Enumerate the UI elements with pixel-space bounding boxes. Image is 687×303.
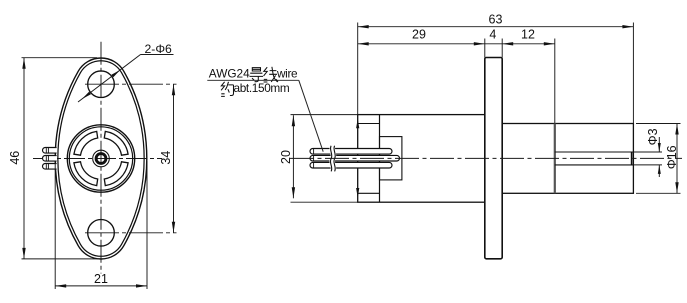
- dimension 12 extension line right: [554, 39, 556, 124]
- crosshair / extension line bottom hole: [85, 232, 177, 234]
- dimension PHI3 extension line bottom: [633, 164, 662, 166]
- dimension 21 line with arrows: [55, 285, 147, 287]
- dimension 20 extension line top: [291, 114, 358, 116]
- body step line top (side view): [358, 123, 380, 125]
- wire tab top (front view): [43, 148, 57, 154]
- wire lead top (side view): [310, 149, 392, 155]
- dimension PHI3 line with outside arrows: [658, 137, 660, 152]
- leader arrowhead upper right: [111, 70, 120, 77]
- label AWG underline: [207, 79, 298, 81]
- CJK glyph YUE (approx): [221, 82, 233, 97]
- phi3 bore line bottom (side view): [555, 164, 634, 166]
- cable break symbol (side view): [332, 146, 333, 172]
- dimension 63 extension line right: [632, 23, 634, 124]
- dimension 29/4/12 extension line at flange left: [484, 39, 486, 58]
- dimension 4 line segment: [485, 43, 502, 45]
- connector body outer circle (front view): [67, 125, 134, 192]
- small arrow mark on left face bottom: [356, 188, 359, 198]
- dimension 46 line with arrows: [23, 58, 25, 259]
- dimension 29/4/12 extension line at flange right: [501, 39, 503, 58]
- leader arrowhead lower left: [82, 92, 91, 99]
- svg-text:63: 63: [489, 13, 503, 27]
- bore end wall (side view): [631, 152, 633, 165]
- phi3 bore line top (side view): [555, 151, 634, 153]
- dimension PHI16 extension line bottom: [636, 192, 681, 194]
- svg-text:21: 21: [94, 272, 108, 286]
- horizontal centerline (front view): [33, 158, 162, 160]
- svg-text:abt.150mm: abt.150mm: [234, 81, 290, 95]
- dimension 63 extension line left: [357, 23, 359, 115]
- flange outer outline (front view): [55, 58, 147, 259]
- slot sector NW (front view): [104, 162, 128, 186]
- label AWG leader line to wire: [299, 80, 323, 151]
- slot sector SW (front view): [74, 162, 98, 186]
- label 2-PHI6 leader line: [141, 54, 174, 56]
- slot sector SE (front view): [74, 131, 98, 155]
- svg-text:20: 20: [279, 150, 293, 164]
- mounting hole top (front view): [88, 71, 115, 98]
- dimension 46 extension line top: [22, 57, 98, 59]
- small arrow mark on left face top: [356, 119, 359, 129]
- svg-text:12: 12: [521, 28, 535, 42]
- crosshair / extension line top hole: [85, 83, 177, 85]
- inner terminal block (side view): [380, 137, 402, 180]
- dimension 20 extension line bottom: [291, 201, 358, 203]
- dimension 12 line with arrows: [502, 43, 555, 45]
- barrel seam line (side view): [554, 124, 556, 194]
- dimension PHI16 line with arrows: [676, 124, 678, 194]
- center contact pin ring (front view): [96, 154, 106, 164]
- svg-text:4: 4: [489, 28, 496, 42]
- svg-text:46: 46: [8, 151, 22, 165]
- body outline (side view, phi20 rear shell): [358, 115, 485, 203]
- svg-text:Φ3: Φ3: [646, 128, 660, 145]
- wire lead bottom (side view): [310, 162, 392, 168]
- center contact outer thin circle (front view): [93, 150, 110, 167]
- svg-text:AWG24: AWG24: [209, 67, 250, 81]
- svg-text:29: 29: [412, 28, 426, 42]
- CJK glyph DAO (lead): [250, 68, 264, 82]
- svg-text:Φ16: Φ16: [665, 145, 679, 169]
- mounting hole bottom (front view): [88, 220, 115, 247]
- mounting flange plate (side view): [485, 58, 502, 259]
- front barrel (side view, phi16): [502, 124, 633, 194]
- dimension 63 line with arrows: [358, 26, 634, 28]
- body step line bottom (side view): [358, 192, 380, 194]
- svg-text:34: 34: [159, 151, 173, 165]
- flange inner edge outline (front view): [58, 61, 144, 257]
- vertical centerline (front view): [100, 42, 102, 274]
- wire tab bottom (front view): [43, 164, 57, 170]
- wire lead middle (side view): [310, 155, 400, 161]
- connector body second circle (front view): [69, 127, 132, 190]
- svg-text:wire: wire: [276, 67, 298, 81]
- dimension 46 extension line bottom: [22, 258, 102, 260]
- slot sector NE (front view): [104, 131, 128, 155]
- svg-text:2-Φ6: 2-Φ6: [145, 42, 173, 56]
- wire tab middle (front view): [43, 156, 57, 162]
- dimension PHI16 extension line top: [636, 123, 681, 125]
- dimension 21 extension line right: [146, 161, 148, 289]
- dimension 20 line with arrows: [292, 115, 294, 198]
- dimension PHI3 extension line top: [633, 151, 662, 153]
- dimension 34 line with arrows: [173, 84, 175, 233]
- CJK glyph XIAN (wire): [264, 67, 278, 82]
- horizontal centerline (side view): [290, 157, 682, 159]
- dimension 21 extension line left: [54, 161, 56, 289]
- dimension 29 line with arrows: [358, 43, 485, 45]
- body seam line (side view): [379, 115, 381, 203]
